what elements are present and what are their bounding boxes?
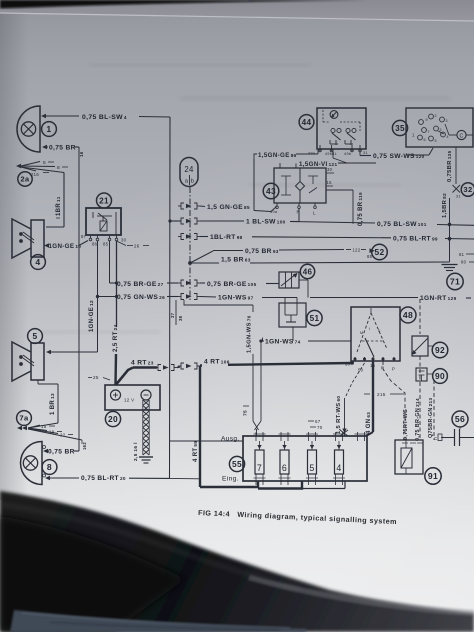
svg-text:4: 4 [447, 135, 449, 139]
svg-text:49a: 49a [270, 210, 278, 214]
svg-text:1BL-RT98: 1BL-RT98 [210, 234, 243, 241]
svg-text:49bBL: 49bBL [325, 152, 337, 156]
svg-text:1 BL-SW100: 1 BL-SW100 [246, 219, 286, 226]
svg-text:16: 16 [79, 151, 84, 157]
svg-text:56: 56 [455, 414, 465, 424]
svg-text:35: 35 [395, 124, 405, 133]
svg-text:1GN-WS97: 1GN-WS97 [218, 295, 254, 302]
svg-text:II: II [378, 329, 381, 333]
svg-text:8: 8 [57, 165, 60, 171]
svg-text:215: 215 [377, 392, 386, 397]
svg-text:48: 48 [403, 310, 413, 320]
svg-text:1GN-WS74: 1GN-WS74 [265, 339, 301, 346]
svg-text:5: 5 [43, 160, 46, 166]
svg-text:21: 21 [99, 196, 109, 205]
svg-text:162: 162 [82, 442, 87, 450]
svg-text:0,75RT-WS: 0,75RT-WS [403, 409, 409, 440]
svg-text:86: 86 [92, 242, 98, 247]
svg-text:6: 6 [424, 138, 426, 142]
svg-text:3: 3 [446, 119, 448, 123]
svg-text:31: 31 [456, 195, 461, 199]
svg-text:0,75 BR: 0,75 BR [49, 145, 76, 152]
svg-text:30: 30 [121, 238, 127, 243]
svg-text:216: 216 [31, 172, 39, 177]
svg-text:20: 20 [108, 414, 118, 424]
svg-text:R: R [297, 210, 301, 215]
svg-text:a: a [185, 179, 189, 185]
svg-text:5: 5 [32, 331, 37, 341]
svg-text:51: 51 [310, 314, 320, 323]
svg-text:2,5 RT24: 2,5 RT24 [112, 324, 119, 352]
svg-text:71: 71 [450, 277, 460, 287]
svg-text:80: 80 [461, 260, 467, 265]
svg-text:4 RT106: 4 RT106 [204, 359, 230, 366]
svg-text:85: 85 [103, 242, 109, 247]
svg-text:1,5GN-GE86: 1,5GN-GE86 [258, 152, 297, 159]
svg-text:0,75 BL-RT20: 0,75 BL-RT20 [81, 475, 126, 482]
svg-text:0,75 BR93: 0,75 BR93 [245, 248, 279, 255]
svg-text:43: 43 [266, 186, 276, 196]
svg-text:15: 15 [41, 424, 47, 429]
svg-text:6: 6 [282, 463, 287, 473]
svg-text:12 V: 12 V [124, 398, 134, 403]
svg-text:46: 46 [303, 267, 313, 276]
svg-text:M: M [360, 331, 364, 335]
svg-text:5: 5 [309, 463, 314, 473]
svg-text:9: 9 [426, 118, 428, 122]
svg-text:1,5GN-VI121: 1,5GN-VI121 [299, 161, 338, 168]
svg-text:b: b [191, 179, 195, 185]
svg-text:I: I [369, 327, 370, 331]
svg-text:90: 90 [435, 371, 445, 381]
svg-text:1: 1 [46, 124, 51, 134]
svg-text:3: 3 [440, 128, 442, 132]
svg-text:37: 37 [170, 312, 175, 318]
svg-text:31: 31 [363, 151, 368, 155]
svg-text:C: C [434, 436, 438, 441]
svg-text:24: 24 [184, 165, 194, 174]
svg-text:2,5 16 l: 2,5 16 l [133, 442, 139, 461]
svg-text:92: 92 [435, 345, 445, 355]
svg-text:8: 8 [47, 462, 52, 472]
svg-text:2a: 2a [21, 175, 30, 184]
svg-text:30: 30 [345, 362, 351, 367]
svg-text:4 RT23: 4 RT23 [131, 360, 154, 367]
svg-text:4: 4 [336, 463, 341, 473]
svg-text:15: 15 [327, 180, 333, 185]
svg-text:0,75 SW-WS120: 0,75 SW-WS120 [373, 153, 425, 160]
svg-text:75: 75 [243, 410, 249, 416]
svg-text:38: 38 [178, 315, 183, 321]
svg-text:1,5 GN-GE85: 1,5 GN-GE85 [207, 204, 250, 211]
svg-text:Eing.: Eing. [222, 476, 239, 483]
svg-text:44: 44 [302, 118, 312, 127]
svg-text:91: 91 [428, 471, 438, 481]
svg-text:1: 1 [412, 133, 415, 138]
svg-text:0,75 BR: 0,75 BR [48, 448, 75, 455]
svg-text:Ausg.: Ausg. [221, 436, 240, 443]
svg-text:0,75 GN-WS26: 0,75 GN-WS26 [117, 294, 165, 301]
svg-text:26: 26 [134, 244, 140, 249]
svg-text:0,75 BL-SW101: 0,75 BL-SW101 [377, 221, 427, 228]
svg-text:32: 32 [463, 185, 472, 194]
svg-text:1GN-RT129: 1GN-RT129 [420, 295, 457, 302]
svg-text:0,75 BR-GE27: 0,75 BR-GE27 [117, 281, 164, 288]
svg-text:4: 4 [35, 257, 40, 267]
svg-text:L: L [313, 211, 316, 216]
svg-text:7a: 7a [19, 414, 29, 423]
svg-text:30: 30 [327, 167, 333, 172]
svg-text:P: P [392, 367, 395, 372]
svg-text:52: 52 [374, 247, 384, 257]
svg-text:55: 55 [232, 459, 242, 469]
svg-text:122: 122 [353, 248, 361, 253]
svg-text:7: 7 [428, 130, 430, 134]
svg-text:49a: 49a [308, 152, 316, 156]
svg-text:0,75 BR-GE105: 0,75 BR-GE105 [207, 281, 257, 288]
svg-text:5: 5 [435, 139, 437, 143]
svg-text:7: 7 [257, 463, 262, 473]
svg-text:49b: 49b [344, 152, 351, 156]
svg-text:0,75 BL-RT99: 0,75 BL-RT99 [393, 236, 438, 243]
svg-text:81: 81 [459, 252, 465, 257]
svg-text:C: C [459, 133, 463, 139]
svg-text:67: 67 [315, 419, 321, 424]
svg-text:25: 25 [93, 375, 99, 380]
svg-text:0,75 BL-SW4: 0,75 BL-SW4 [82, 114, 127, 121]
svg-text:2: 2 [435, 114, 437, 118]
svg-text:1,5 BR63: 1,5 BR63 [221, 257, 251, 264]
svg-text:1GN-GE10: 1GN-GE10 [49, 243, 82, 250]
svg-text:70: 70 [317, 425, 323, 430]
